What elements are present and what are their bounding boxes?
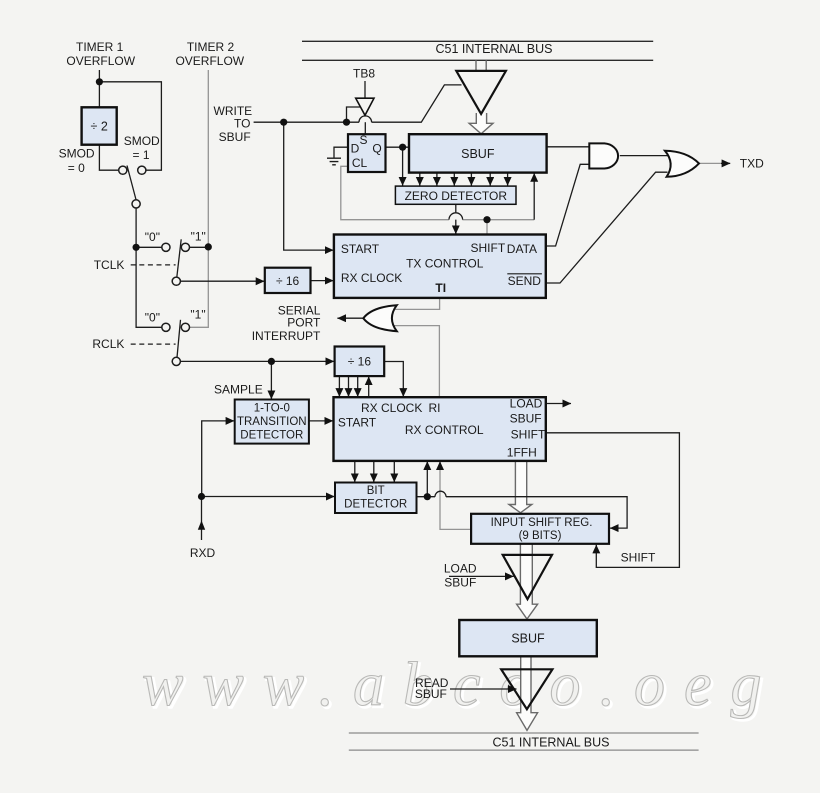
svg-text:SAMPLE: SAMPLE — [214, 383, 263, 397]
svg-text:÷ 16: ÷ 16 — [348, 355, 372, 369]
svg-text:DATA: DATA — [507, 242, 537, 256]
svg-text:RX CLOCK: RX CLOCK — [361, 401, 422, 415]
svg-text:DETECTOR: DETECTOR — [344, 499, 407, 511]
svg-text:SBUF: SBUF — [219, 130, 251, 144]
svg-text:TXD: TXD — [740, 157, 764, 171]
svg-text:LOAD: LOAD — [510, 397, 543, 411]
svg-text:TRANSITION: TRANSITION — [237, 416, 307, 428]
svg-text:RXD: RXD — [190, 546, 216, 560]
svg-text:"0": "0" — [145, 230, 160, 244]
svg-text:TB8: TB8 — [353, 67, 375, 81]
svg-text:INTERRUPT: INTERRUPT — [252, 329, 321, 343]
svg-text:1-TO-0: 1-TO-0 — [254, 403, 290, 415]
svg-text:C51 INTERNAL BUS: C51 INTERNAL BUS — [493, 736, 610, 750]
svg-text:PORT: PORT — [287, 315, 321, 329]
svg-text:SEND: SEND — [508, 274, 542, 288]
svg-text:OVERFLOW: OVERFLOW — [175, 54, 244, 68]
svg-text:DETECTOR: DETECTOR — [240, 430, 303, 442]
svg-text:= 1: = 1 — [132, 148, 149, 162]
svg-text:TX CONTROL: TX CONTROL — [406, 257, 484, 271]
svg-text:D: D — [351, 142, 360, 156]
svg-text:SBUF: SBUF — [415, 687, 447, 701]
svg-text:S: S — [359, 133, 367, 147]
svg-text:RX CONTROL: RX CONTROL — [405, 423, 484, 437]
svg-text:"1": "1" — [190, 307, 205, 321]
svg-text:÷ 2: ÷ 2 — [91, 120, 108, 134]
svg-text:SMOD: SMOD — [124, 134, 160, 148]
svg-text:www.abcoo.oeg: www.abcoo.oeg — [142, 651, 781, 719]
svg-text:TI: TI — [435, 281, 446, 295]
svg-text:BIT: BIT — [367, 485, 385, 497]
svg-text:START: START — [341, 242, 380, 256]
svg-text:LOAD: LOAD — [444, 562, 477, 576]
svg-text:"1": "1" — [191, 229, 206, 243]
svg-text:RCLK: RCLK — [92, 337, 124, 351]
svg-text:(9 BITS): (9 BITS) — [519, 530, 562, 542]
svg-text:Q: Q — [372, 142, 381, 156]
svg-text:TO: TO — [234, 117, 250, 131]
svg-text:INPUT SHIFT REG.: INPUT SHIFT REG. — [491, 517, 593, 529]
svg-text:SBUF: SBUF — [511, 632, 545, 646]
svg-text:CL: CL — [352, 156, 368, 170]
svg-text:÷ 16: ÷ 16 — [276, 274, 300, 288]
svg-text:SBUF: SBUF — [444, 576, 476, 590]
svg-text:SMOD: SMOD — [59, 147, 95, 161]
svg-text:SBUF: SBUF — [461, 147, 495, 161]
svg-text:TIMER 1: TIMER 1 — [76, 40, 124, 54]
svg-text:= 0: = 0 — [68, 161, 85, 175]
svg-text:SBUF: SBUF — [510, 412, 542, 426]
svg-text:"0": "0" — [145, 311, 160, 325]
svg-text:SHIFT: SHIFT — [471, 241, 506, 255]
svg-text:RX CLOCK: RX CLOCK — [341, 271, 402, 285]
svg-text:1FFH: 1FFH — [507, 445, 537, 459]
svg-text:RI: RI — [429, 401, 441, 415]
svg-text:START: START — [338, 416, 377, 430]
svg-text:TIMER 2: TIMER 2 — [187, 40, 235, 54]
svg-text:SHIFT: SHIFT — [621, 551, 656, 565]
svg-text:C51 INTERNAL BUS: C51 INTERNAL BUS — [436, 42, 553, 56]
svg-text:SHIFT: SHIFT — [511, 428, 546, 442]
svg-text:ZERO DETECTOR: ZERO DETECTOR — [405, 189, 508, 203]
svg-text:OVERFLOW: OVERFLOW — [66, 54, 135, 68]
svg-text:TCLK: TCLK — [94, 258, 125, 272]
